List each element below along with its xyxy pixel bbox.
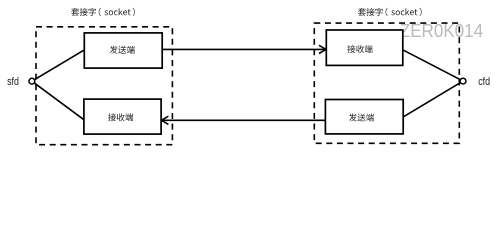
right receiver box 接收端 <box>326 30 403 65</box>
right sender text 发送端 <box>349 113 374 121</box>
wire top arrow left sender to right receiver <box>162 48 326 50</box>
left sender box 发送端 <box>84 33 162 68</box>
left receiver box 接收端 <box>84 99 161 134</box>
left label 套接字（socket） <box>71 8 135 16</box>
node sfd circle <box>29 78 35 84</box>
svg-text:cfd: cfd <box>478 76 490 88</box>
right label 套接字（socket） <box>358 8 422 16</box>
wire cfd to right receiver box <box>402 49 463 81</box>
bottom arrowhead <box>161 116 168 124</box>
right socket dashed box <box>314 23 459 143</box>
top arrowhead <box>319 45 326 53</box>
svg-text:ZER0K014: ZER0K014 <box>400 21 483 41</box>
node cfd circle <box>460 78 466 84</box>
left socket dashed box <box>36 27 172 145</box>
wire cfd to right sender box <box>402 81 463 117</box>
svg-text:sfd: sfd <box>7 76 19 88</box>
wire bottom arrow right sender to left receiver <box>161 119 325 121</box>
right receiver text 接收端 <box>347 45 372 53</box>
wire sfd to left sender box <box>32 49 85 81</box>
left receiver text 接收端 <box>108 113 133 121</box>
left sender text 发送端 <box>110 46 135 54</box>
right sender box 发送端 <box>325 100 403 134</box>
wire sfd to left receiver box <box>32 81 85 120</box>
